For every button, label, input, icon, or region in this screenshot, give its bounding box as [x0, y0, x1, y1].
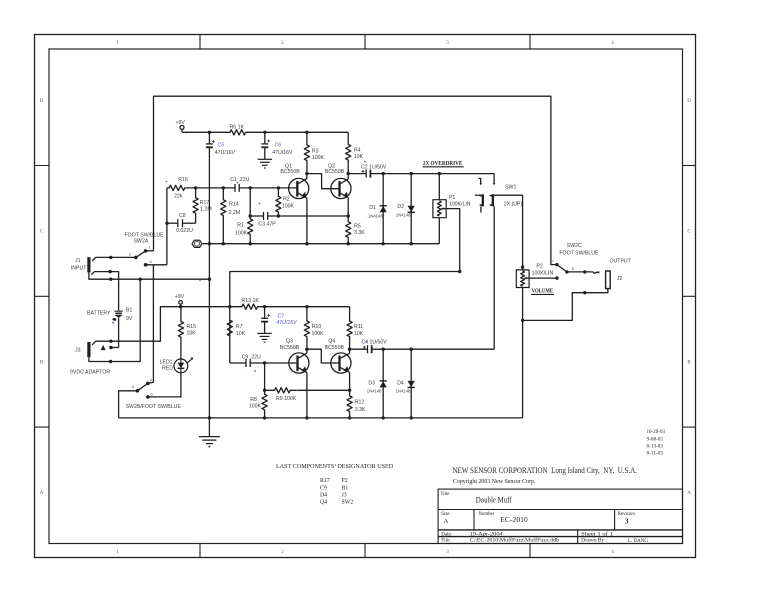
zone tick bottom 1 — [199, 544, 201, 558]
svg-text:INPUT: INPUT — [71, 265, 87, 271]
wire C4 row — [350, 348, 368, 350]
label 2X OVERDRIVE (bold underlined) — [423, 160, 554, 294]
svg-text:Title: Title — [441, 492, 450, 497]
J1 ring contact — [91, 272, 110, 275]
last components designator table — [276, 463, 394, 506]
svg-text:SW2: SW2 — [342, 500, 354, 506]
svg-text:R16: R16 — [178, 177, 188, 183]
wire +9V rail stage1 — [182, 131, 229, 133]
svg-text:OUTPUT: OUTPUT — [610, 259, 632, 265]
svg-text:47U/16V: 47U/16V — [215, 150, 236, 156]
zone tick right 2 — [683, 295, 696, 297]
ground symbol main — [208, 418, 210, 437]
svg-text:J3: J3 — [75, 348, 81, 354]
ground under C6 — [264, 148, 266, 159]
svg-text:J2: J2 — [617, 276, 623, 282]
svg-text:R9 100K: R9 100K — [276, 396, 297, 402]
wire stage1 ground bus — [203, 243, 440, 245]
zone tick right 1 — [683, 165, 696, 167]
power port circle (bus left end) — [192, 240, 202, 247]
svg-text:R13 1K: R13 1K — [242, 298, 260, 304]
wire SW2A pin3 down to SW2B pin4 — [148, 265, 154, 384]
svg-text:C9: C9 — [320, 485, 327, 491]
svg-text:22k: 22k — [174, 194, 183, 200]
svg-text:LAST COMPONENTS’ DESIGNATOR US: LAST COMPONENTS’ DESIGNATOR USED — [276, 463, 394, 470]
capacitor C9 .22U — [230, 362, 246, 364]
wire J2 sleeve to P2 bottom tap — [523, 289, 608, 321]
zone tick top 2 — [364, 35, 366, 50]
title block — [438, 489, 682, 543]
svg-text:SW2A: SW2A — [134, 238, 149, 244]
svg-text:C2 1U/50V: C2 1U/50V — [361, 164, 387, 170]
battery B1 9V — [114, 310, 122, 312]
switch SW1 2X(UP) — [493, 174, 495, 184]
wire stage1 input vertical from SW2A pin3 — [166, 188, 168, 265]
wire signal C1 to Q1 base — [239, 187, 297, 189]
svg-text:100K: 100K — [312, 331, 325, 337]
svg-text:J3: J3 — [342, 493, 347, 499]
wire C2 to SW1 corner — [370, 173, 494, 175]
wire J1 sleeve row — [89, 272, 209, 279]
capacitor C2 1U/50V (series, polarized) — [365, 170, 367, 178]
zone tick bottom 3 — [529, 544, 531, 558]
resistor R3 100K — [304, 132, 309, 173]
svg-text:R17: R17 — [320, 478, 330, 484]
svg-text:9VDC ADAPTOR: 9VDC ADAPTOR — [70, 370, 110, 376]
svg-text:R12: R12 — [355, 400, 365, 406]
ground under C7 — [264, 322, 266, 333]
svg-text:Q4: Q4 — [320, 500, 327, 506]
svg-text:R15: R15 — [187, 324, 197, 330]
wire C9 to Q3 base — [250, 362, 297, 364]
svg-text:R4: R4 — [354, 147, 361, 153]
svg-text:100K: 100K — [282, 203, 295, 209]
wire emitter row stage1 right — [268, 215, 349, 217]
capacitor C8 0.022U — [167, 222, 178, 224]
resistor R5 3.3K (Q2 emitter) — [346, 198, 351, 244]
svg-text:+9V: +9V — [175, 294, 185, 300]
wire main ground bus — [119, 417, 523, 419]
svg-text:C9 .22U: C9 .22U — [242, 354, 261, 360]
wire J1 ring to battery top — [110, 272, 118, 311]
capacitor C7 47U/16V — [264, 307, 266, 319]
svg-text:C8: C8 — [179, 213, 186, 219]
resistor R8 100K — [262, 363, 267, 418]
svg-text:D3: D3 — [368, 380, 375, 386]
zone labels top — [40, 41, 692, 555]
jack J1 input body — [87, 257, 90, 272]
title block company text — [441, 430, 666, 544]
svg-text:R5: R5 — [354, 223, 361, 229]
svg-text:R10: R10 — [312, 324, 322, 330]
diode D3 1N4148 — [382, 349, 384, 418]
svg-text:Q4: Q4 — [328, 339, 335, 345]
svg-text:1N4148: 1N4148 — [367, 388, 382, 393]
svg-text:SW2C: SW2C — [567, 243, 582, 249]
wire +9V stub — [181, 129, 183, 132]
svg-text:BC550B: BC550B — [325, 345, 345, 351]
capacitor C1 .22U (series) — [234, 184, 236, 192]
svg-text:10K: 10K — [187, 331, 197, 337]
svg-text:D: D — [40, 99, 44, 104]
svg-text:+9V: +9V — [176, 120, 186, 126]
J3 sleeve — [89, 357, 111, 361]
svg-text:R14: R14 — [229, 201, 239, 207]
wire rail after R6 — [247, 131, 349, 133]
svg-text:P2: P2 — [342, 478, 348, 484]
diode D2 1N4148 — [410, 174, 412, 244]
svg-text:D4: D4 — [397, 380, 404, 386]
resistor R17 1.2M — [193, 188, 198, 223]
wire bypass loop: SW2A pin1 up over top to SW2C pin7 — [154, 96, 557, 264]
svg-text:BC550B: BC550B — [280, 169, 300, 175]
svg-text:C:\EC-2010\MuffFuzz\MuffFuzz.d: C:\EC-2010\MuffFuzz\MuffFuzz.ddb — [470, 537, 560, 544]
svg-text:A: A — [687, 491, 691, 496]
wire Q1 collector jog to Q2 base — [307, 174, 340, 189]
zone tick left 2 — [35, 295, 50, 297]
svg-text:RED: RED — [162, 365, 173, 371]
svg-text:10K: 10K — [354, 154, 364, 160]
svg-text:B1: B1 — [342, 485, 349, 491]
svg-text:Revision: Revision — [618, 512, 636, 517]
resistor R9 100K (row2) — [265, 388, 292, 393]
svg-text:Sheet 1 of 1: Sheet 1 of 1 — [581, 530, 613, 537]
svg-text:R2: R2 — [283, 196, 290, 202]
zone tick right 3 — [683, 426, 696, 428]
svg-text:P1: P1 — [449, 195, 455, 201]
svg-text:FOOT SW/BLUE: FOOT SW/BLUE — [559, 251, 599, 257]
svg-text:3.3K: 3.3K — [355, 407, 366, 413]
J1 tip contact — [92, 257, 111, 261]
zone tick top 3 — [529, 35, 531, 50]
capacitor C5 47U/16V — [208, 132, 210, 144]
svg-text:19-Apr-2004: 19-Apr-2004 — [470, 531, 503, 537]
resistor R12 3.3K (Q4 emitter) — [347, 373, 352, 418]
resistor R10 100K — [304, 307, 309, 350]
svg-text:Q3: Q3 — [286, 339, 293, 345]
svg-text:R7: R7 — [236, 324, 243, 330]
switch SW2A — [134, 256, 138, 260]
wire battery bottom to J3 ring — [111, 347, 119, 349]
zone tick bottom 2 — [364, 544, 366, 558]
power terminal +9V stage2 — [179, 301, 183, 305]
svg-text:47U/16V: 47U/16V — [272, 150, 293, 156]
svg-text:8-11-03: 8-11-03 — [647, 452, 664, 457]
jack J2 body — [606, 271, 611, 289]
wire SW2A pin2 from J1 tip — [111, 256, 136, 258]
resistor R6 1K (series in rail) — [229, 130, 247, 135]
svg-text:J1: J1 — [75, 258, 81, 264]
svg-text:R3: R3 — [312, 149, 319, 155]
svg-text:BATTERY: BATTERY — [87, 311, 111, 317]
resistor R4 10K — [346, 132, 351, 173]
svg-text:D4: D4 — [320, 493, 327, 499]
svg-text:VOLUME: VOLUME — [532, 288, 554, 295]
svg-text:C3 47P: C3 47P — [258, 221, 276, 227]
svg-text:8-13-03: 8-13-03 — [647, 445, 664, 450]
switch SW2C lever and contacts — [555, 263, 558, 266]
svg-text:File:: File: — [441, 539, 450, 544]
svg-text:9V: 9V — [126, 316, 133, 322]
wire emitter row stage1 left — [250, 215, 263, 217]
switch SW2B — [136, 389, 140, 393]
capacitor C6 47U/16V — [264, 132, 266, 144]
svg-text:2.2M: 2.2M — [229, 210, 241, 216]
svg-text:10K: 10K — [236, 331, 246, 337]
svg-text:C6: C6 — [275, 143, 282, 149]
wire C4 to SW1 tail — [372, 348, 495, 350]
svg-text:C7: C7 — [278, 314, 286, 320]
zone tick left 3 — [35, 426, 50, 428]
wire stage2 +9V rail from J3 tip — [111, 307, 230, 342]
svg-text:1N4148: 1N4148 — [368, 213, 383, 218]
resistor R15 10K — [178, 307, 183, 360]
zone tick top 1 — [199, 35, 201, 50]
J3 switched contact arrow — [101, 345, 106, 350]
LED1 RED — [174, 359, 188, 373]
svg-text:3.3K: 3.3K — [354, 230, 365, 236]
svg-text:R17: R17 — [200, 200, 210, 206]
jack J3 body — [87, 342, 90, 357]
diode D4 1N4148 — [410, 349, 412, 418]
svg-text:0.022U: 0.022U — [176, 228, 193, 234]
wire C2 row — [348, 173, 366, 175]
resistor R16 22k (series in signal) — [167, 185, 187, 190]
transistor Q2 BC550B — [331, 178, 351, 198]
resistor R13 1K (series in rail2) — [230, 304, 260, 309]
svg-text:NEW SENSOR CORPORATION Long I: NEW SENSOR CORPORATION Long Island City,… — [453, 465, 638, 475]
schematic text labels — [70, 120, 632, 413]
svg-text:C4 1U/50V: C4 1U/50V — [361, 340, 387, 346]
wire ground bus left end up to SW2B pin5 — [119, 391, 138, 418]
svg-text:Number: Number — [479, 512, 495, 517]
svg-text:3: 3 — [625, 517, 629, 525]
svg-text:A: A — [444, 518, 449, 525]
border frame inner — [49, 49, 683, 544]
svg-text:C1 .22U: C1 .22U — [230, 177, 249, 183]
svg-text:100K: 100K — [235, 231, 248, 237]
svg-text:P2: P2 — [536, 263, 542, 269]
wire LED cathode to SW2B pin6 — [148, 373, 181, 397]
capacitor C3 47P (series in row) — [263, 212, 265, 220]
resistor R2 100K — [276, 188, 281, 216]
svg-text:1N4148: 1N4148 — [396, 212, 411, 217]
jack J2 tip contact — [585, 272, 600, 273]
svg-text:D2: D2 — [397, 204, 404, 210]
svg-text:2X OVERDRIVE: 2X OVERDRIVE — [423, 160, 463, 167]
wire Q3 collector jog to Q4 base — [307, 349, 340, 363]
LED light arrows — [187, 359, 192, 363]
resistor R1 100K — [248, 188, 253, 244]
wire ground column stage1 bus to main bus — [208, 244, 210, 418]
svg-text:1.2M: 1.2M — [200, 207, 212, 213]
svg-text:100K: 100K — [312, 155, 325, 161]
svg-text:10K: 10K — [354, 331, 364, 337]
svg-text:SW1: SW1 — [505, 185, 516, 191]
svg-text:47U/16V: 47U/16V — [276, 320, 297, 326]
svg-text:SW2B/FOOT SW/BLUE: SW2B/FOOT SW/BLUE — [126, 404, 182, 410]
transistor Q1 BC550B — [289, 178, 309, 198]
svg-text:L. DANG: L. DANG — [628, 539, 648, 544]
resistor R14 2.2M — [221, 188, 226, 244]
potentiometer P1 100K/LIN — [438, 174, 440, 200]
wire P1 wiper to stage2 input — [230, 209, 460, 363]
svg-text:Copyright 2003 New Sensor Corp: Copyright 2003 New Sensor Corp. — [453, 479, 536, 485]
svg-text:BC550B: BC550B — [280, 345, 300, 351]
svg-text:D: D — [687, 99, 691, 104]
svg-text:A: A — [40, 491, 44, 496]
wire P2 bottom to ground bus — [522, 288, 524, 418]
diode D1 1N4148 — [382, 174, 384, 244]
wire row2 to Q4 emitter — [292, 389, 350, 391]
potentiometer P2 100K/LIN volume — [522, 267, 524, 270]
wire P2 wiper — [529, 277, 557, 279]
svg-text:100K/LIN: 100K/LIN — [532, 271, 554, 277]
svg-text:10-20-03: 10-20-03 — [647, 430, 666, 435]
svg-text:B1: B1 — [126, 307, 132, 313]
resistor R11 10K — [347, 307, 352, 350]
svg-text:BC550B: BC550B — [325, 169, 345, 175]
power terminal +9V stage1 — [180, 125, 184, 129]
svg-text:Double Muff: Double Muff — [476, 495, 512, 504]
wire rail2 to R11 — [260, 306, 350, 308]
resistor R7 10K — [227, 320, 232, 336]
transistor Q4 BC550B — [331, 353, 351, 373]
svg-text:Date:: Date: — [441, 532, 452, 537]
svg-text:D1: D1 — [369, 205, 376, 211]
svg-text:C5: C5 — [218, 143, 225, 149]
J3 tip contact — [92, 341, 111, 345]
svg-text:100K/LIN: 100K/LIN — [449, 201, 471, 207]
svg-text:R11: R11 — [354, 324, 363, 330]
svg-text:Drawn By :: Drawn By : — [581, 538, 608, 544]
svg-text:100K: 100K — [249, 403, 262, 409]
zone tick left 1 — [35, 165, 50, 167]
svg-text:R6 1K: R6 1K — [230, 125, 245, 131]
wire signal R16 to C1 — [187, 187, 235, 189]
transistor Q3 BC550B — [289, 353, 309, 373]
svg-text:EC-2010: EC-2010 — [500, 515, 528, 524]
capacitor C4 1U/50V (series, polarized) — [367, 345, 369, 353]
border frame outer — [35, 35, 696, 558]
svg-text:R8: R8 — [250, 397, 257, 403]
svg-text:2X (UP): 2X (UP) — [504, 202, 523, 208]
svg-text:9-08-03: 9-08-03 — [647, 437, 664, 442]
svg-text:Size: Size — [441, 512, 449, 517]
svg-text:1N4148: 1N4148 — [396, 388, 411, 393]
svg-text:R1: R1 — [237, 222, 244, 228]
wire J3 sleeve from J1 sleeve row — [111, 279, 141, 361]
